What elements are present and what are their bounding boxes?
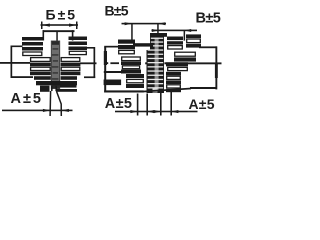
ladder R1 (upper, adjacent right of core) xyxy=(167,37,183,50)
ladder L2 (mid-left) xyxy=(121,57,141,74)
bridge bar (left of core top) xyxy=(133,43,153,46)
thick left-bottom bar xyxy=(104,80,122,86)
bottom leads (right assembly) xyxy=(138,90,172,116)
svg-text:А±5: А±5 xyxy=(11,91,44,107)
dimension В±5 #2 xyxy=(152,29,198,41)
ladder R3 (outer mid-right) xyxy=(174,52,196,61)
bottom-left dimension xyxy=(2,109,73,112)
bobbin top xyxy=(43,30,75,42)
outer shell box xyxy=(11,46,96,79)
ladder R2 (outer upper-right) xyxy=(186,34,201,47)
wire axis left xyxy=(0,62,30,64)
lighter middle column xyxy=(155,38,159,91)
dimension В±5 #1 xyxy=(122,22,167,40)
svg-text:В±5: В±5 xyxy=(105,3,129,19)
dimension Б±5 xyxy=(41,22,79,30)
wire axis right xyxy=(80,62,97,64)
inner-right winding ladder xyxy=(61,58,81,80)
white slits (horizontal) xyxy=(148,38,164,93)
dash-dot axis xyxy=(106,62,222,64)
upper-left winding ladder xyxy=(22,37,43,56)
central core block xyxy=(147,33,168,93)
svg-text:Б±5: Б±5 xyxy=(46,6,78,22)
core (stippled) xyxy=(51,41,59,89)
ladder L3 (low-left) xyxy=(126,74,144,88)
bottom-right dimension xyxy=(115,110,198,113)
bottom flange bars xyxy=(36,81,77,92)
outer shell box (right) xyxy=(104,46,218,93)
upper-right winding ladder xyxy=(69,37,88,55)
ladder R5 (lower, adjacent right of core) xyxy=(166,72,181,92)
inner-left winding ladder xyxy=(30,58,51,80)
svg-text:В±5: В±5 xyxy=(196,11,221,27)
svg-text:А±5: А±5 xyxy=(105,96,132,112)
left mid shelf line xyxy=(104,71,123,73)
svg-text:А±5: А±5 xyxy=(189,96,215,112)
ladder L1 (upper-left) xyxy=(118,40,135,54)
ladder R4 (bridge right of core) xyxy=(166,62,188,70)
lead wires down xyxy=(50,91,61,116)
box bottom mid (slanted) xyxy=(144,88,192,93)
